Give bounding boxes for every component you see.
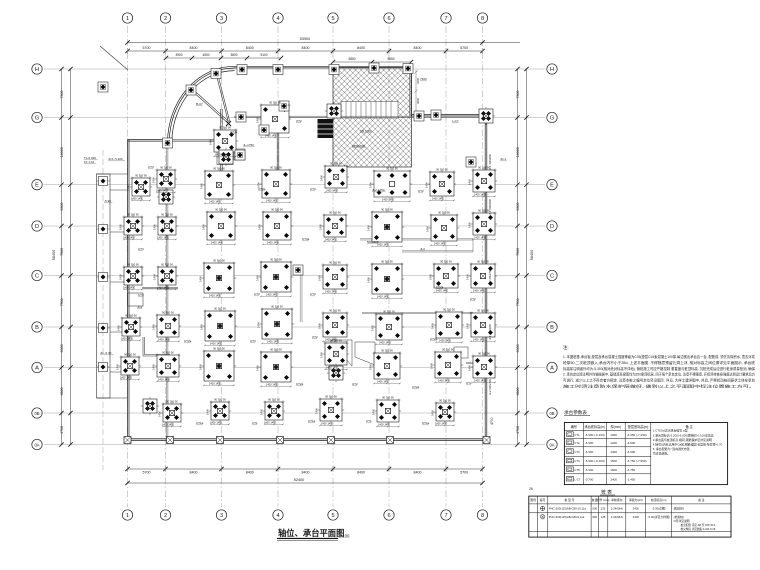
svg-text:90 300 90: 90 300 90 [162,350,174,354]
svg-text:90 300 90: 90 300 90 [443,307,455,311]
svg-text:125: 125 [601,506,606,510]
svg-text:2: 2 [164,513,167,519]
svg-text:90 300 90: 90 300 90 [213,258,225,262]
svg-text:1400: 1400 [320,352,324,358]
svg-text:90 300 90: 90 300 90 [166,399,178,403]
svg-text:90 300 90: 90 300 90 [330,161,342,165]
svg-text:90 300 90: 90 300 90 [383,309,395,313]
axis bubble 3 top [216,13,226,23]
svg-text:7300: 7300 [516,91,520,99]
svg-text:1400: 1400 [200,183,204,189]
beam C connector [142,288,178,289]
svg-text:-6.750: -6.750 [627,468,636,472]
svg-text:90 300 90: 90 300 90 [219,125,231,129]
svg-text:注:: 注: [563,344,569,351]
svg-text:JL2 300x700: JL2 300x700 [488,379,492,395]
svg-text:CT2a: CT2a [430,337,438,341]
svg-text:JL1 300x800: JL1 300x800 [488,154,492,170]
pile cap arc b [186,85,196,95]
axis bubble D left [32,221,42,231]
svg-text:1.CT(Oa)表示承台编号 a型: 1.CT(Oa)表示承台编号 a型 [653,428,688,433]
svg-text:6300: 6300 [60,344,64,352]
pile cap 2/A [155,353,181,379]
svg-text:4: 4 [276,513,279,519]
svg-text:1:100: 1:100 [339,534,351,539]
axis bubble 1 top [122,13,132,23]
table B row 2 [540,515,716,531]
svg-text:5850: 5850 [387,57,394,61]
svg-text:1: 1 [126,16,129,22]
svg-text:0B: 0B [549,411,554,416]
svg-text:CT1,: CT1, [574,433,580,437]
pile cap 0/H [98,82,108,92]
table B row 1 [540,506,684,510]
svg-text:1300: 1300 [610,450,617,454]
pile cap 7/0B [434,401,456,423]
svg-text:1200: 1200 [610,441,617,445]
svg-text:1400: 1400 [372,409,376,415]
pile cap 3/G [236,112,246,122]
dark core block [318,119,334,138]
svg-text:E: E [550,183,554,189]
wall bottom edge [128,439,487,441]
svg-text:桩顶标高(m): 桩顶标高(m) [651,498,666,502]
svg-text:1400: 1400 [318,275,322,281]
svg-text:90 300 90: 90 300 90 [325,394,337,398]
axis bubble 7 top [441,13,451,23]
svg-text:90 300 90: 90 300 90 [270,165,282,169]
svg-text:B-C7: B-C7 [196,102,203,106]
svg-text:6: 6 [387,513,390,519]
pile cap 8/E [471,168,497,194]
detail polygon 1 [331,340,352,366]
detail polygon 2 [355,342,375,365]
svg-text:4700: 4700 [490,417,494,425]
svg-text:CT3a: CT3a [258,187,266,191]
svg-text:图例: 图例 [530,498,536,502]
pile cap 2/D [156,215,178,237]
svg-text:5: 5 [331,16,334,22]
svg-text:-6.750 (-7.550): -6.750 (-7.550) [627,459,647,463]
wall hatch right edge [410,66,412,116]
pile cap arc a [211,69,221,79]
svg-text:1400: 1400 [425,182,429,188]
svg-text:0B: 0B [34,411,39,416]
roof cut diagonal line top-left [100,46,128,70]
svg-text:1400: 1400 [466,274,470,280]
table A rows [566,432,646,482]
pile cap 8/G [477,107,495,125]
wall left top link [128,140,168,142]
beam mid y313 [362,312,473,313]
beam L near 2B [143,337,170,356]
svg-text:CT2: CT2 [312,335,318,339]
pile cap hub a [212,128,238,154]
svg-text:可进行, 减少以上之不符合者方规定, 注意本桩之编号定: 可进行, 减少以上之不符合者方规定, 注意本桩之编号定位另见图示, 详见, 大样… [563,378,756,383]
svg-text:C: C [550,274,554,280]
svg-text:CT1: CT1 [252,421,258,425]
svg-text:桩尖构造 详见图集 0-041-5.26: 桩尖构造 详见图集 0-041-5.26 [681,527,716,531]
svg-text:1400: 1400 [152,364,156,370]
svg-text:A: A [35,366,39,372]
pile cap 0/E [97,177,110,186]
svg-text:90 300 90: 90 300 90 [440,259,452,263]
svg-text:-6.600: -6.600 [627,450,636,454]
svg-text:1400: 1400 [468,222,472,228]
svg-text:3.承台底与桩顶标高 相同,钢筋保护层详见说明: 3.承台底与桩顶标高 相同,钢筋保护层详见说明 [653,437,712,442]
axis bubble 0B left [32,408,42,418]
svg-text:6300: 6300 [60,203,64,211]
pile cap 2/0B [161,402,183,424]
stair band inside hatch [341,102,398,119]
dimension chain bottom total 52400 [125,478,484,485]
svg-text:编号: 编号 [571,424,577,429]
beam axis2 vertical [166,143,168,439]
axis bubble D right [547,221,557,231]
svg-text:CT3,: CT3, [574,450,580,454]
pile cap 1/C [122,265,144,287]
hatch inner dim column [414,70,417,114]
svg-text:8400: 8400 [302,46,310,50]
pile cap 2/C [156,265,178,287]
sub-dimension row y58 [164,53,283,60]
pile cap 4/C [259,260,293,294]
svg-text:编号: 编号 [540,498,546,502]
wall top beam H [235,66,335,68]
pile cap 7/A [433,350,463,380]
axis bubble 7 bottom [441,510,451,520]
table B frame [529,496,731,537]
curved wall arc [168,66,235,143]
svg-text:壁厚 (mm): 壁厚 (mm) [597,498,610,502]
svg-text:1400: 1400 [257,322,261,328]
svg-text:1400: 1400 [431,323,435,329]
svg-text:1400: 1400 [369,182,373,188]
svg-text:2-2400kN: 2-2400kN [611,506,623,510]
pile cap 2/E b [157,188,175,206]
svg-text:90 300 90: 90 300 90 [214,397,226,401]
svg-text:52400: 52400 [294,478,305,482]
svg-text:垫层底标高(m): 垫层底标高(m) [628,424,649,429]
pile cap 4/D [261,210,293,242]
svg-text:1400: 1400 [117,325,121,331]
pile cap 3/B [203,309,237,343]
svg-text:承台底标高(m): 承台底标高(m) [584,424,605,429]
axis bubble E left [32,180,42,190]
beam G row through hatch [234,116,487,117]
svg-text:标高除注明者外均为-5.300(相对绝对标高不详地), 管桩: 标高除注明者外均为-5.300(相对绝对标高不详地), 管桩施工时应严格控制 垂… [563,366,756,371]
svg-text:1400: 1400 [256,275,260,281]
axis bubble 2 top [160,13,170,23]
beam jog x473 [472,239,474,252]
svg-text:1400: 1400 [371,325,375,331]
pile cap 4/G [259,103,291,135]
svg-text:90 300 90: 90 300 90 [124,352,136,356]
pile cap 3/0B [209,400,231,422]
svg-text:-5.30(详见大样图): -5.30(详见大样图) [648,515,670,519]
svg-text:G: G [550,116,554,122]
svg-text:3600: 3600 [416,97,420,104]
svg-text:90 300 90: 90 300 90 [213,346,225,350]
svg-text:5850: 5850 [348,57,355,61]
svg-text:5700: 5700 [143,471,151,475]
svg-text:6: 6 [387,16,390,22]
svg-text:3400: 3400 [633,515,640,519]
svg-text:CT3: CT3 [250,339,256,343]
pile cap 0/C [97,273,110,282]
pile cap 2/B [155,313,181,339]
svg-text:90 300 90: 90 300 90 [442,347,454,351]
svg-text:90 300 90: 90 300 90 [381,207,393,211]
svg-text:7500: 7500 [516,248,520,256]
svg-text:500: 500 [592,506,597,510]
svg-text:CT2: CT2 [466,381,472,385]
svg-text:90 300 90: 90 300 90 [125,313,137,317]
svg-text:90 300 90: 90 300 90 [330,338,342,342]
svg-text:7: 7 [444,16,447,22]
svg-text:1: 1 [126,513,129,519]
axis bubble 6 bottom [384,510,394,520]
svg-text:3: 3 [220,513,223,519]
svg-text:PHC-500(125)AB-C80-10,11a: PHC-500(125)AB-C80-10,11a [549,506,587,510]
svg-text:7300: 7300 [420,77,427,81]
svg-text:3800: 3800 [230,53,237,57]
pile cap 8/A [471,354,497,380]
svg-text:1400: 1400 [200,324,204,330]
svg-text:1400: 1400 [119,224,123,230]
pile cap 5/B [321,311,349,339]
svg-text:JL3: JL3 [420,247,425,251]
pile cap 1/E [130,176,152,198]
hub cluster extra [217,149,245,165]
svg-text:1400: 1400 [258,224,262,230]
svg-text:JC2: JC2 [137,305,143,309]
svg-text:1400: 1400 [367,277,371,283]
hatched ramp region [333,68,412,168]
pile cap 1/0B [141,397,159,415]
pile cap hub b [217,148,235,166]
svg-text:-5.300: -5.300 [585,441,594,445]
pile cap 1/D [122,215,144,237]
svg-text:1400: 1400 [315,408,319,414]
pile cap 5/H [329,65,339,75]
svg-text:1400: 1400 [369,364,373,370]
axis bubble 4 top [273,13,283,23]
pile cap 3/C [202,261,236,295]
svg-text:3400: 3400 [633,506,640,510]
svg-text:-0.700: -0.700 [585,477,594,481]
cap reference labels [84,77,507,425]
svg-text:1400: 1400 [256,117,260,123]
pile cap 7/D [429,213,459,243]
svg-text:1400: 1400 [199,364,203,370]
svg-text:CT3: CT3 [148,165,154,169]
svg-text:G: G [35,116,39,122]
svg-text:1400: 1400 [318,323,322,329]
table A header [571,424,694,429]
pile cap 6/E [372,169,412,199]
svg-text:JC1 -5.300: JC1 -5.300 [108,157,123,161]
svg-text:CT3: CT3 [138,247,144,251]
svg-text:1400: 1400 [127,185,131,191]
svg-text:90 300 90: 90 300 90 [270,257,282,261]
svg-text:VB 7.5%: VB 7.5% [360,129,372,133]
pile cap 6/C [370,262,404,296]
svg-text:4: 4 [276,16,279,22]
stair strip left annex outline [97,174,128,398]
svg-text:1400: 1400 [320,175,324,181]
svg-text:-5.30(详图): -5.30(详图) [652,506,666,510]
svg-text:1400: 1400 [260,409,264,415]
svg-text:1400: 1400 [158,411,162,417]
svg-text:CT3: CT3 [138,293,144,297]
axis bubble 8 bottom [477,510,487,520]
svg-text:备 注: 备 注 [698,498,705,502]
secondary grid line x103 [102,150,104,470]
radial beam 1 [191,89,230,124]
beam mid y251 [402,251,473,252]
svg-text:90 300 90: 90 300 90 [268,397,280,401]
axis bubble 4 bottom [273,510,283,520]
svg-text:CT2a: CT2a [436,285,444,289]
svg-text:CT1a: CT1a [422,421,430,425]
svg-text:-5.300: -5.300 [585,450,594,454]
svg-text:1400: 1400 [466,323,470,329]
pile cap 6-7/G [431,110,441,120]
pile cap 8/B [469,311,497,339]
beam x301 C down [300,275,302,322]
svg-text:C: C [35,274,39,280]
svg-text:CT2a: CT2a [296,382,304,386]
svg-text:1400: 1400 [199,276,203,282]
svg-text:-5.300 (-6.100): -5.300 (-6.100) [585,433,605,437]
svg-text:1400: 1400 [429,274,433,280]
svg-text:B: B [550,325,554,331]
svg-text:90 300 90: 90 300 90 [127,262,139,266]
svg-text:JC -5.30: JC -5.30 [100,351,112,355]
svg-text:90 300 90: 90 300 90 [439,398,451,402]
svg-text:6300: 6300 [516,344,520,352]
radial beam 2 [216,73,230,121]
pile cap 3-H beam [237,65,247,75]
svg-text:26: 26 [529,487,533,491]
axis bubble G right [547,112,557,122]
cap dimension marks [116,100,497,427]
pile cap 5/A a [323,341,349,367]
pile cap 3/E [203,169,235,201]
svg-text:1400: 1400 [468,365,472,371]
axis bubble H right [547,64,557,74]
svg-text:承台参数表: 承台参数表 [564,409,587,416]
svg-text:4.括号()内标高用于Oa区,钢筋锚固 长度按-垫层厚-0: 4.括号()内标高用于Oa区,钢筋锚固 长度按-垫层厚-0.70 [653,442,723,447]
svg-text:125: 125 [601,515,606,519]
notes paragraph [563,354,756,389]
svg-text:JL2-1750: JL2-1750 [372,188,385,192]
pile cap 4/G c [259,125,269,135]
svg-text:1400: 1400 [206,409,210,415]
svg-text:1400: 1400 [367,225,371,231]
svg-text:8400: 8400 [302,471,310,475]
svg-text:1400: 1400 [153,224,157,230]
svg-text:N号详见说明: N号详见说明 [674,519,690,523]
svg-text:1500: 1500 [610,468,617,472]
svg-text:90 300 90: 90 300 90 [477,259,489,263]
svg-text:桩身配筋 详见 AB 型 10P-513,: 桩身配筋 详见 AB 型 10P-513, [681,523,716,527]
svg-text:1400: 1400 [116,364,120,370]
svg-text:1400: 1400 [430,363,434,369]
svg-text:8400: 8400 [190,471,198,475]
svg-text:1400: 1400 [209,139,213,145]
svg-text:JL-1750: JL-1750 [243,143,254,147]
pile cap 1/B [120,316,142,338]
svg-text:轴位、承台平面图: 轴位、承台平面图 [278,528,344,538]
pile cap 4/E [260,168,292,200]
svg-text:CT2: CT2 [418,189,424,193]
svg-text:L-CT: L-CT [574,477,580,481]
svg-text:7500: 7500 [60,248,64,256]
pile cap 3/A [202,349,236,383]
svg-text:2-2400kN: 2-2400kN [611,515,623,519]
pile cap 7/C [432,262,460,290]
axis bubble 0A right [547,439,557,449]
svg-text:单桩竖向: 单桩竖向 [611,498,622,502]
svg-text:均详见结施。: 均详见结施。 [653,451,670,456]
svg-text:1400: 1400 [202,224,206,230]
svg-text:CT3: CT3 [310,187,316,191]
svg-text:-6.600: -6.600 [627,441,636,445]
svg-text:5700: 5700 [460,46,468,50]
svg-text:90 300 90: 90 300 90 [135,173,147,177]
svg-text:16000: 16000 [60,147,64,157]
axis bubble 6 top [384,13,394,23]
pile cap 4/G b [279,101,289,111]
svg-text:8400: 8400 [246,46,254,50]
axis bubble E right [547,180,557,190]
svg-text:CT2: CT2 [352,382,358,386]
svg-text:D: D [550,224,554,230]
svg-text:CT4,: CT4, [574,459,580,463]
svg-text:1500: 1500 [610,459,617,463]
pile cap 6/B [374,312,404,342]
table A frame [564,423,727,485]
svg-text:CT1: CT1 [366,419,372,423]
pile cap 8/D [471,211,497,237]
svg-text:1400: 1400 [119,274,123,280]
pile cap 4/H [273,65,283,75]
svg-text:90 300 90: 90 300 90 [386,166,398,170]
svg-text:1400: 1400 [468,179,472,185]
beam axis4 G to E [277,131,279,171]
wall top-right beam G [412,114,488,116]
axis bubble 8 top [477,13,487,23]
pile cap 5/A b [327,364,345,382]
pile cap 0/D [97,225,110,234]
svg-text:5: 5 [331,513,334,519]
dimension chain top segments [125,46,484,54]
svg-text:5700: 5700 [143,46,151,50]
axis bubble 5 top [328,13,338,23]
small rect detail right [454,347,468,358]
svg-text:90 300 90: 90 300 90 [329,308,341,312]
svg-text:CT3: CT3 [254,292,260,296]
svg-text:D: D [35,224,39,230]
svg-text:CT1a: CT1a [196,421,204,425]
svg-text:CT2,: CT2, [574,441,580,445]
pile cap 4/B [260,307,294,341]
svg-text:JL2 300x700: JL2 300x700 [488,269,492,285]
svg-text:1. 本图桩基,承台板,垫层及承台混凝土强度等级为C35(垫: 1. 本图桩基,承台板,垫层及承台混凝土强度等级为C35(垫层C15素混凝土10… [563,354,756,359]
pile cap 1/A [119,355,141,377]
